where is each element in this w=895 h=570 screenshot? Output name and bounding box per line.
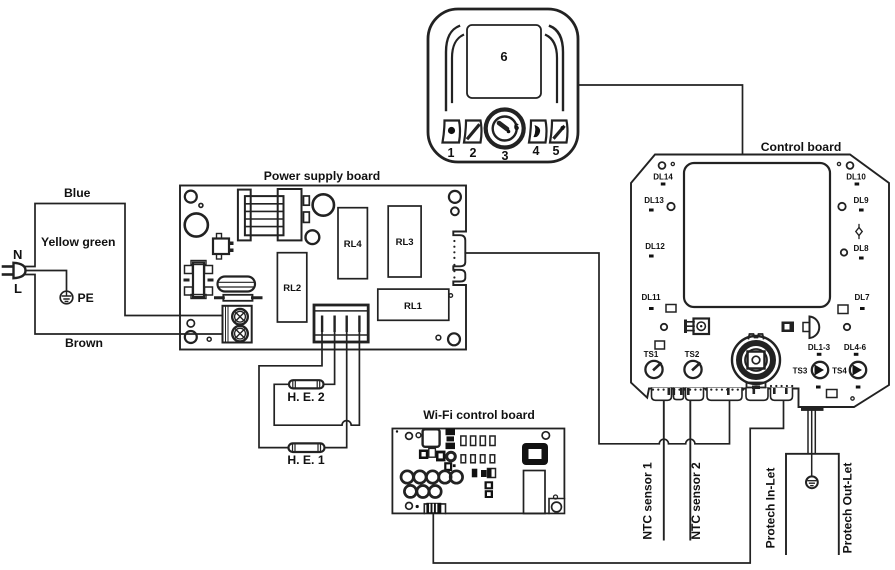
pad square (838, 305, 848, 314)
control board outline (631, 155, 889, 408)
wifi module chip (522, 443, 548, 465)
wire yellow-green to PE (26, 271, 67, 292)
svg-text:N: N (13, 247, 22, 262)
button 4 (529, 121, 547, 159)
pad square (666, 305, 676, 313)
pad ring (416, 433, 421, 438)
hole circle bottom-left (185, 331, 197, 343)
resistor row 2 (461, 455, 495, 463)
svg-text:2: 2 (470, 146, 477, 160)
svg-text:DL10: DL10 (846, 173, 866, 182)
corner pads (554, 495, 558, 499)
hole circle below (306, 230, 320, 244)
svg-text:NTC sensor 1: NTC sensor 1 (641, 462, 655, 540)
LED DL8 (853, 244, 869, 260)
hole circle top-left (185, 191, 197, 203)
optocoupler U2 (684, 319, 709, 335)
svg-text:DL8: DL8 (853, 244, 869, 253)
pad top-right (837, 162, 840, 165)
hole circle top-right (449, 191, 461, 203)
connector J3 right edge (453, 231, 468, 286)
svg-text:DL12: DL12 (645, 242, 665, 251)
capacitor C1 (218, 277, 256, 292)
wifi board outline (392, 429, 564, 514)
fiducial dot (396, 430, 398, 432)
mains plug (3, 263, 26, 278)
wire control-panel to control-board (578, 85, 743, 155)
component stack (446, 429, 456, 449)
hole (838, 203, 845, 210)
pad ring (187, 320, 194, 327)
wire blue N (26, 204, 223, 316)
svg-text:1: 1 (448, 146, 455, 160)
diode D2 half-round (803, 317, 819, 339)
svg-text:Yellow green: Yellow green (41, 235, 116, 249)
svg-text:DL11: DL11 (641, 293, 661, 302)
header pins row of 3 (404, 485, 441, 497)
wire power board to control board with hops (465, 253, 729, 444)
svg-text:TS2: TS2 (685, 350, 700, 359)
transistor Q1 (213, 234, 234, 260)
heating element H.E.1 (287, 443, 324, 467)
pad ring (851, 397, 854, 400)
svg-text:DL14: DL14 (653, 173, 673, 182)
button 5 (550, 121, 568, 159)
svg-text:4: 4 (533, 144, 540, 158)
wire pin2 to H.E.2 right (324, 332, 335, 384)
power supply board outline (180, 186, 466, 350)
left decorative arc inner (452, 35, 463, 102)
LED DL4-6 (844, 343, 867, 356)
button 2 (464, 121, 482, 161)
hole circle bottom-right (448, 333, 460, 345)
svg-text:H. E. 2: H. E. 2 (287, 390, 324, 404)
relay component K1 (184, 261, 214, 299)
svg-text:RL3: RL3 (396, 237, 414, 248)
LED DL7 (854, 293, 870, 310)
svg-text:DL13: DL13 (644, 196, 664, 205)
small pad (207, 337, 211, 341)
hole circle right of transformer (313, 194, 334, 215)
chip U4 (423, 429, 440, 447)
LED DL11 (641, 293, 661, 310)
LED DL14 (653, 173, 673, 186)
svg-text:PE: PE (78, 291, 94, 305)
svg-text:DL9: DL9 (853, 196, 869, 205)
svg-text:RL4: RL4 (344, 239, 363, 250)
hole circle left (185, 213, 208, 236)
relay RL3 (388, 206, 421, 277)
svg-text:TS3: TS3 (793, 367, 808, 376)
NTC sensor 2 wire (689, 401, 691, 540)
svg-text:DL7: DL7 (854, 293, 870, 302)
hole (844, 324, 850, 330)
relay RL1 (378, 289, 453, 320)
NTC sensor 1 wire (663, 401, 665, 540)
pad ring bottom right (436, 335, 441, 340)
control board display (684, 163, 830, 307)
relay RL4 (338, 208, 367, 279)
svg-text:TS4: TS4 (832, 367, 847, 376)
svg-text:6: 6 (514, 122, 519, 133)
svg-text:5: 5 (553, 144, 560, 158)
hole (667, 203, 674, 210)
svg-text:L: L (14, 281, 22, 296)
LED DL13 (644, 196, 664, 212)
trimmer TS3 (793, 362, 829, 378)
hole (661, 324, 667, 330)
heating element H.E.2 (287, 380, 324, 404)
display 6 (467, 25, 541, 98)
header pins row of 5 (401, 471, 463, 483)
pad square (655, 341, 665, 349)
mid components (472, 469, 496, 478)
wire pin4 to H.E.2 left with hop (274, 332, 359, 425)
svg-text:DL1-3: DL1-3 (808, 343, 831, 352)
LED DL1-3 (808, 343, 831, 356)
trimmer TS4 (832, 362, 866, 378)
hole top-right (542, 432, 549, 439)
transformer T1 (238, 189, 309, 240)
LED DL12 (645, 242, 665, 258)
right decorative arc outer (550, 26, 563, 110)
small chip pair (485, 481, 494, 498)
led pads below TS3 TS4 (816, 386, 821, 389)
protech loop wires (786, 454, 839, 554)
led hole top-right (847, 162, 854, 169)
svg-text:H. E. 1: H. E. 1 (287, 453, 324, 467)
trimmer TS1 (644, 350, 663, 378)
connector pin ticks (668, 388, 788, 395)
wire pin1 to H.E.1 left (259, 332, 322, 448)
svg-text:Brown: Brown (65, 336, 103, 350)
diode D1 (856, 225, 862, 239)
svg-text:TS1: TS1 (644, 350, 659, 359)
svg-text:Blue: Blue (64, 186, 91, 200)
ground probe symbol (806, 476, 818, 488)
LED DL10 (846, 173, 866, 186)
small pad (199, 203, 203, 207)
wire pin3 to H.E.1 right (325, 332, 347, 448)
wire brown L (26, 275, 223, 335)
svg-text:Control board: Control board (761, 140, 842, 154)
svg-text:Wi-Fi control board: Wi-Fi control board (423, 408, 535, 422)
left decorative arc outer (446, 26, 459, 110)
svg-text:Protech In-Let: Protech In-Let (764, 468, 778, 549)
connector shells bottom edge (652, 388, 793, 400)
IC U3 (782, 322, 795, 333)
svg-text:NTC sensor 2: NTC sensor 2 (689, 462, 703, 540)
resistor row 1 (461, 436, 495, 446)
hole (841, 249, 847, 255)
relay RL2 (277, 253, 306, 322)
PE earth symbol (60, 291, 73, 304)
small ic (444, 462, 455, 471)
central knob encoder (732, 334, 780, 389)
svg-text:Protech Out-Let: Protech Out-Let (841, 463, 855, 554)
control panel unit outline (428, 9, 578, 162)
svg-text:Power supply board: Power supply board (264, 169, 380, 183)
svg-text:DL4-6: DL4-6 (844, 343, 867, 352)
small ic cluster (419, 448, 455, 461)
svg-text:3: 3 (502, 149, 509, 163)
protech wires triple (808, 411, 815, 477)
dotted silk line (652, 385, 793, 391)
svg-text:RL2: RL2 (283, 283, 301, 294)
protech connector bar (801, 407, 824, 411)
svg-text:RL1: RL1 (404, 301, 423, 312)
wifi connector (426, 503, 441, 514)
hole (406, 433, 413, 440)
right decorative arc inner (546, 35, 557, 102)
shield can (524, 471, 546, 514)
pad circle top-right (451, 207, 459, 215)
button 1 (443, 121, 461, 161)
terminal block X1 (223, 306, 252, 343)
knob button 3 (486, 110, 524, 164)
svg-text:6: 6 (500, 49, 507, 64)
connector J2 4-pin (314, 305, 368, 342)
led hole top-left (659, 162, 666, 169)
pad dot (416, 505, 419, 508)
wire control board to wifi board (433, 401, 783, 564)
pad (671, 162, 674, 165)
LED DL9 (853, 196, 869, 212)
pad square bottom (827, 390, 838, 398)
hole bottom-left (406, 503, 413, 510)
resistor R1 (216, 295, 262, 301)
trimmer TS2 (684, 350, 701, 378)
